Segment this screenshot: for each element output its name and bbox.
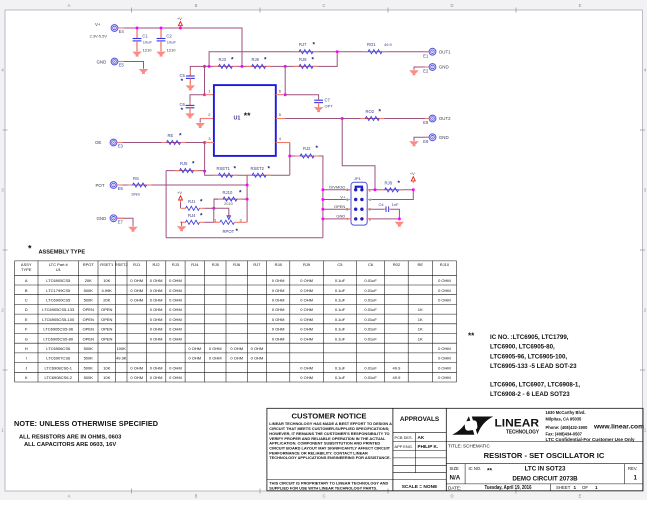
- wire RSET mid node down to RPOT pin 3: [246, 175, 248, 222]
- ground at C6: [185, 113, 195, 118]
- svg-text:GND: GND: [97, 59, 107, 64]
- svg-text:500K: 500K: [84, 365, 94, 370]
- svg-text:K: K: [25, 375, 28, 380]
- svg-text:0 OHM: 0 OHM: [169, 288, 182, 293]
- capacitor C7: [314, 97, 330, 107]
- svg-text:10K: 10K: [103, 278, 110, 283]
- resistor RJ9: [294, 56, 318, 68]
- op-amp / oscillator IC U1: [214, 85, 276, 156]
- svg-text:OF: OF: [582, 485, 588, 490]
- svg-text:500K: 500K: [84, 298, 94, 303]
- wire pin 3 down to RSET1/RSET2 row: [205, 143, 290, 176]
- svg-text:RJ5: RJ5: [180, 161, 188, 166]
- svg-text:LTC6908CS6-2: LTC6908CS6-2: [45, 375, 73, 380]
- svg-text:500K: 500K: [84, 346, 94, 351]
- svg-text:49.9: 49.9: [393, 375, 402, 380]
- svg-text:E: E: [25, 317, 28, 322]
- svg-text:RE: RE: [168, 133, 174, 138]
- svg-text:**: **: [244, 111, 251, 121]
- svg-text:LTC6905CS5: LTC6905CS5: [46, 278, 71, 283]
- svg-text:0 OHM: 0 OHM: [251, 346, 264, 351]
- +V power at RJ1: [177, 190, 182, 202]
- junction pin4/RJ2 branch: [288, 155, 291, 158]
- junction RJ1/RJ10/wiper node: [212, 207, 215, 210]
- svg-text:1: 1: [214, 217, 216, 222]
- svg-text:OUT2: OUT2: [439, 116, 451, 121]
- svg-text:20K: 20K: [103, 298, 110, 303]
- svg-text:0 OHM: 0 OHM: [130, 288, 143, 293]
- wire +V to RJ1: [180, 202, 182, 208]
- svg-text:C2: C2: [166, 34, 172, 39]
- svg-text:E: E: [579, 494, 582, 499]
- assembly type note: [28, 244, 85, 256]
- svg-text:Milpitas, CA 95035: Milpitas, CA 95035: [546, 417, 583, 422]
- connector E6 (POT): [110, 182, 123, 192]
- pin stubs: [117, 28, 429, 219]
- capacitor C6: [180, 101, 195, 114]
- resistor RSET2: [247, 166, 271, 178]
- svg-text:GND: GND: [97, 216, 107, 221]
- svg-text:0 OHM: 0 OHM: [272, 307, 285, 312]
- svg-text:TYPE: TYPE: [21, 267, 32, 272]
- svg-text:OPEN: OPEN: [83, 327, 94, 332]
- svg-text:GND: GND: [439, 135, 449, 140]
- wire node down to RPOT pin 1: [213, 208, 215, 222]
- svg-text:RPOT: RPOT: [223, 229, 235, 234]
- svg-text:PHILIP K.: PHILIP K.: [418, 444, 439, 449]
- svg-text:OPEN: OPEN: [83, 307, 94, 312]
- svg-text:OPEN: OPEN: [101, 317, 112, 322]
- svg-text:0 OHM: 0 OHM: [150, 298, 163, 303]
- svg-text:OPEN: OPEN: [101, 336, 112, 341]
- svg-text:0 OHM: 0 OHM: [150, 375, 163, 380]
- junction RS node: [246, 184, 249, 187]
- wire row-A RJ7 rail: [209, 52, 337, 67]
- svg-text:IC NO. :LTC6905, LTC1799,: IC NO. :LTC6905, LTC1799,: [490, 334, 569, 341]
- svg-text:D: D: [25, 307, 28, 312]
- svg-text:0 OHM: 0 OHM: [300, 278, 313, 283]
- wire C4 to ground node: [390, 209, 399, 219]
- svg-text:0 OHM: 0 OHM: [150, 307, 163, 312]
- svg-text:0.01uF: 0.01uF: [364, 278, 377, 283]
- junction pin 6 node: [284, 93, 287, 96]
- svg-text:0 OHM: 0 OHM: [300, 307, 313, 312]
- svg-text:R02: R02: [393, 262, 401, 267]
- svg-text:LTC6906CS6: LTC6906CS6: [46, 346, 71, 351]
- svg-text:0 OHM: 0 OHM: [169, 317, 182, 322]
- U1 pin 4 stub: [276, 136, 290, 142]
- svg-text:20K: 20K: [85, 278, 92, 283]
- svg-text:0 OHM: 0 OHM: [272, 327, 285, 332]
- size / ic no / rev row: [450, 466, 638, 483]
- svg-text:+V: +V: [410, 171, 415, 176]
- ground at JP1: [395, 222, 405, 227]
- svg-text:REV.: REV.: [628, 466, 637, 471]
- svg-text:0.01uF: 0.01uF: [364, 336, 377, 341]
- svg-text:0.1uF: 0.1uF: [335, 375, 346, 380]
- wire JP1 pin 4 to +V: [366, 190, 413, 200]
- svg-text:RJ6: RJ6: [252, 57, 260, 62]
- svg-text:C: C: [322, 3, 325, 8]
- svg-text:0 OHM: 0 OHM: [150, 288, 163, 293]
- svg-text:B: B: [25, 288, 28, 293]
- date row: [448, 485, 598, 491]
- junction +V rail: [179, 27, 182, 30]
- junction pin 1 node: [203, 93, 206, 96]
- svg-text:0 OHM: 0 OHM: [300, 336, 313, 341]
- U1 pin 6 stub: [276, 88, 285, 94]
- connector E9 (GND): [423, 134, 448, 144]
- svg-text:IC NO.: IC NO.: [469, 466, 482, 471]
- svg-text:0 OHM: 0 OHM: [438, 278, 451, 283]
- svg-text:0 OHM: 0 OHM: [300, 327, 313, 332]
- header JP1: [351, 176, 367, 225]
- ground at C5: [186, 85, 196, 90]
- svg-text:B: B: [195, 3, 198, 8]
- svg-text:0 OHM: 0 OHM: [272, 317, 285, 322]
- svg-text:LTC6905CS5-133: LTC6905CS5-133: [42, 307, 75, 312]
- junction row-B/pin6 branch: [284, 65, 287, 68]
- wire V+ rail from E4 to RJ3/RJ6 node: [118, 28, 242, 66]
- svg-text:0 OHM: 0 OHM: [130, 365, 143, 370]
- junction OUT2/JP1 branch: [341, 117, 344, 120]
- wire RJ2 row to JP1 select bus: [290, 156, 323, 238]
- connector E7 (GND): [110, 215, 123, 225]
- svg-text:RS: RS: [133, 176, 139, 181]
- wire JP1 pin 7 row: [323, 218, 351, 220]
- svg-text:LTC6900, LTC6905-80,: LTC6900, LTC6905-80,: [490, 344, 555, 351]
- wire pin 5 to OUT2: [285, 118, 428, 120]
- svg-text:1K: 1K: [418, 317, 423, 322]
- svg-text:0 OHM: 0 OHM: [300, 375, 313, 380]
- potentiometer RPOT: [214, 216, 247, 235]
- resistor RJ7: [294, 42, 318, 54]
- svg-text:TECHNOLOGY: TECHNOLOGY: [506, 430, 540, 436]
- svg-text:0 OHM: 0 OHM: [150, 327, 163, 332]
- resistor RE: [162, 132, 186, 144]
- wire E5 to ground: [118, 62, 143, 69]
- svg-text:E8: E8: [423, 120, 429, 125]
- junction C4/pin8 ground: [398, 217, 401, 220]
- svg-text:DNS: DNS: [132, 191, 141, 196]
- svg-text:500K: 500K: [84, 375, 94, 380]
- svg-text:0 OHM: 0 OHM: [209, 346, 222, 351]
- svg-text:OPEN: OPEN: [83, 317, 94, 322]
- wire bottom select rail: [166, 237, 323, 239]
- svg-text:49.9: 49.9: [384, 42, 393, 47]
- svg-text:**: **: [487, 468, 492, 475]
- svg-text:SCALE = NONE: SCALE = NONE: [402, 484, 438, 490]
- svg-text:E5: E5: [119, 63, 125, 68]
- junction row-B/pin1 branch: [203, 65, 206, 68]
- svg-text:1210: 1210: [167, 47, 177, 52]
- junction row-B/V+ rail: [241, 65, 244, 68]
- svg-text:0 OHM: 0 OHM: [272, 298, 285, 303]
- svg-text:49.9: 49.9: [393, 365, 402, 370]
- svg-text:LTC6907CS6: LTC6907CS6: [46, 356, 71, 361]
- wire JP1 pin 8 to ground node: [366, 218, 399, 220]
- svg-text:OPEN: OPEN: [101, 307, 112, 312]
- notes: [14, 419, 158, 448]
- svg-text:LTC6905-133 -5 LEAD SOT-23: LTC6905-133 -5 LEAD SOT-23: [490, 363, 577, 370]
- ground at E9: [409, 141, 419, 146]
- svg-text:RSET1: RSET1: [217, 166, 231, 171]
- wire JP1 pin 2 to +V: [366, 189, 413, 191]
- svg-text:GND: GND: [336, 214, 345, 219]
- svg-text:RJ7: RJ7: [299, 42, 307, 47]
- svg-text:RJ1: RJ1: [133, 262, 141, 267]
- junction select bus row 7: [321, 217, 324, 220]
- U1 pin 3 stub: [205, 136, 214, 142]
- svg-text:OPEN: OPEN: [83, 336, 94, 341]
- svg-text:RE: RE: [417, 262, 423, 267]
- svg-text:RJ6: RJ6: [233, 262, 241, 267]
- svg-text:RJ9: RJ9: [303, 262, 311, 267]
- wire JP1 pin 3 row: [323, 199, 351, 201]
- svg-text:0 OHM: 0 OHM: [188, 356, 201, 361]
- svg-text:0 OHM: 0 OHM: [209, 356, 222, 361]
- resistor RS: [128, 176, 152, 187]
- wire row-B RJ3/RJ6/RJ9 rail: [190, 52, 337, 70]
- junction select bus row 3: [321, 198, 324, 201]
- svg-text:2: 2: [208, 112, 210, 117]
- svg-text:2.3V-5.5V: 2.3V-5.5V: [90, 34, 108, 39]
- svg-text:RESISTOR - SET OSCILLATOR IC: RESISTOR - SET OSCILLATOR IC: [484, 451, 605, 460]
- svg-text:H: H: [25, 346, 28, 351]
- wire RJ1 to wiper node: [205, 207, 215, 209]
- junction select bus row 1: [321, 188, 324, 191]
- svg-text:1630 McCarthy Blvd.: 1630 McCarthy Blvd.: [546, 410, 586, 415]
- capacitor C5: [180, 71, 195, 85]
- wire E2 to ground: [414, 67, 429, 70]
- svg-text:RPOT: RPOT: [83, 262, 95, 267]
- svg-text:APP ENG.: APP ENG.: [395, 444, 413, 449]
- svg-text:B: B: [195, 494, 198, 499]
- svg-text:LTC6908-2 - 6 LEAD SOT23: LTC6908-2 - 6 LEAD SOT23: [490, 391, 570, 398]
- svg-text:RSET2: RSET2: [115, 262, 129, 267]
- svg-text:0 OHM: 0 OHM: [272, 336, 285, 341]
- svg-text:2010: 2010: [224, 201, 234, 206]
- approvals box: [395, 416, 440, 490]
- svg-text:ASSEMBLY TYPE: ASSEMBLY TYPE: [39, 250, 86, 256]
- svg-text:0 OHM: 0 OHM: [272, 288, 285, 293]
- svg-text:OPEN: OPEN: [334, 204, 345, 209]
- address block: [546, 410, 645, 442]
- resistor RJ6: [247, 56, 271, 68]
- svg-text:49.9K: 49.9K: [116, 356, 127, 361]
- wire JP1 pin 5 row: [323, 208, 351, 210]
- resistor RJ4: [181, 213, 205, 225]
- wire pin 2 to ground: [199, 119, 201, 123]
- svg-text:C6: C6: [368, 262, 374, 267]
- svg-text:0 OHM: 0 OHM: [169, 375, 182, 380]
- svg-text:DIVMOD: DIVMOD: [329, 185, 345, 190]
- svg-text:A: A: [68, 494, 71, 499]
- svg-text:0 OHM: 0 OHM: [150, 336, 163, 341]
- svg-text:LTC6905CS5-96: LTC6905CS5-96: [43, 327, 73, 332]
- svg-text:E: E: [579, 3, 582, 8]
- svg-text:500K: 500K: [84, 288, 94, 293]
- svg-text:10uF: 10uF: [167, 39, 177, 44]
- connector E1 (OUT1): [423, 48, 451, 58]
- svg-text:0 OHM: 0 OHM: [230, 356, 243, 361]
- svg-text:RJ9: RJ9: [299, 57, 307, 62]
- svg-text:A: A: [68, 3, 71, 8]
- wire RJ5 row: [166, 170, 205, 172]
- svg-text:0 OHM: 0 OHM: [169, 307, 182, 312]
- svg-text:0.1uF: 0.1uF: [335, 298, 346, 303]
- svg-text:E6: E6: [118, 186, 124, 191]
- assembly options table: [15, 261, 457, 382]
- svg-text:RJ10: RJ10: [440, 262, 450, 267]
- svg-text:ALL CAPACITORS ARE 0603, 16V: ALL CAPACITORS ARE 0603, 16V: [24, 442, 116, 448]
- svg-text:E1: E1: [423, 53, 429, 58]
- wire row-B down to U1 pin 1: [204, 66, 206, 94]
- wire E7 to ground: [117, 218, 133, 226]
- svg-text:RSET2: RSET2: [251, 166, 265, 171]
- svg-text:RO2: RO2: [366, 109, 375, 114]
- svg-text:6: 6: [279, 88, 281, 93]
- svg-text:0.1uF: 0.1uF: [335, 327, 346, 332]
- svg-text:LTC Confidential-For Customer: LTC Confidential-For Customer Use Only: [546, 437, 636, 442]
- svg-text:0 OHM: 0 OHM: [300, 365, 313, 370]
- title block frame: [267, 408, 643, 491]
- svg-text:0.1uF: 0.1uF: [335, 336, 346, 341]
- svg-text:10K: 10K: [103, 375, 110, 380]
- wire RJ4 to ground: [181, 222, 182, 226]
- wire pin 6 to C7: [285, 95, 318, 100]
- svg-text:C: C: [25, 298, 28, 303]
- wire RJ4 to RPOT pin 1: [205, 221, 214, 223]
- svg-text:500K: 500K: [84, 356, 94, 361]
- svg-text:U1: U1: [56, 267, 62, 272]
- svg-text:1K: 1K: [418, 327, 423, 332]
- svg-text:0 OHM: 0 OHM: [438, 346, 451, 351]
- svg-text:GND: GND: [439, 65, 449, 70]
- svg-text:LTC6906, LTC6907, LTC6908-1,: LTC6906, LTC6907, LTC6908-1,: [490, 382, 580, 389]
- svg-text:0 OHM: 0 OHM: [169, 365, 182, 370]
- svg-text:D: D: [450, 3, 453, 8]
- wire POT/RS row: [117, 184, 247, 186]
- svg-text:RJ4: RJ4: [188, 213, 196, 218]
- svg-text:0 OHM: 0 OHM: [438, 375, 451, 380]
- svg-text:0 OHM: 0 OHM: [300, 298, 313, 303]
- svg-text:ALL RESISTORS ARE IN OHMS, 060: ALL RESISTORS ARE IN OHMS, 0603: [19, 435, 122, 441]
- svg-text:DATE:: DATE:: [448, 485, 461, 490]
- svg-text:0 OHM: 0 OHM: [150, 317, 163, 322]
- svg-text:C: C: [322, 494, 325, 499]
- svg-text:A: A: [25, 278, 28, 283]
- svg-text:0.01uF: 0.01uF: [364, 365, 377, 370]
- svg-text:OPEN: OPEN: [101, 327, 112, 332]
- svg-text:TITLE: SCHEMATIC: TITLE: SCHEMATIC: [448, 444, 490, 449]
- svg-text:0 OHM: 0 OHM: [169, 278, 182, 283]
- svg-text:0.01uF: 0.01uF: [364, 298, 377, 303]
- wire OE to pin 3: [117, 142, 204, 144]
- svg-text:RJ8: RJ8: [385, 181, 393, 186]
- svg-text:RJ7: RJ7: [253, 262, 261, 267]
- wire JP1 pin 1 row: [323, 189, 351, 191]
- resistor RO2: [360, 108, 384, 120]
- svg-text:1nF: 1nF: [392, 202, 399, 207]
- resistor RSET1: [214, 166, 238, 178]
- svg-text:DEMO CIRCUIT 2073B: DEMO CIRCUIT 2073B: [512, 476, 578, 483]
- svg-text:0.01uF: 0.01uF: [364, 307, 377, 312]
- svg-text:0 OHM: 0 OHM: [438, 298, 451, 303]
- svg-text:1210: 1210: [143, 47, 153, 52]
- svg-text:1: 1: [595, 485, 598, 490]
- ground at pin 2: [195, 123, 205, 128]
- svg-text:RSET1: RSET1: [100, 262, 114, 267]
- svg-text:0 OHM: 0 OHM: [130, 278, 143, 283]
- svg-text:0 OHM: 0 OHM: [150, 278, 163, 283]
- svg-text:RJ3: RJ3: [219, 57, 227, 62]
- svg-text:0.1uF: 0.1uF: [335, 288, 346, 293]
- svg-text:C5: C5: [337, 262, 343, 267]
- svg-text:3: 3: [240, 217, 242, 222]
- svg-text:0.01uF: 0.01uF: [364, 327, 377, 332]
- junction pin2/OUT2 branch: [374, 188, 377, 191]
- U1 pin 5 stub: [276, 112, 285, 118]
- resistor RJ5: [175, 161, 199, 173]
- ground at C1: [132, 52, 142, 57]
- svg-text:10uF: 10uF: [143, 39, 153, 44]
- svg-text:NOTE: UNLESS OTHERWISE SPECIFI: NOTE: UNLESS OTHERWISE SPECIFIED: [14, 419, 158, 428]
- resistor RO1: [363, 42, 387, 54]
- svg-text:LTC IN SOT23: LTC IN SOT23: [525, 466, 566, 473]
- junction C1/V+ rail: [136, 27, 139, 30]
- svg-text:0.1uF: 0.1uF: [335, 307, 346, 312]
- svg-text:E2: E2: [423, 69, 429, 74]
- wire RJ10 row: [214, 198, 247, 200]
- svg-text:www.linear.com: www.linear.com: [593, 424, 644, 430]
- resistor RJ8: [380, 180, 404, 192]
- wire RJ5 left leg down to bottom rail: [165, 171, 167, 238]
- svg-text:RJ10: RJ10: [223, 190, 233, 195]
- svg-text:CUSTOMER NOTICE: CUSTOMER NOTICE: [291, 411, 366, 420]
- svg-text:10K: 10K: [103, 365, 110, 370]
- svg-text:0 OHM: 0 OHM: [300, 317, 313, 322]
- resistor RJ3: [213, 56, 237, 68]
- svg-text:LTC6908CS6-1: LTC6908CS6-1: [45, 365, 73, 370]
- svg-text:1K: 1K: [418, 336, 423, 341]
- svg-text:U1: U1: [234, 116, 241, 122]
- svg-text:0 OHM: 0 OHM: [130, 375, 143, 380]
- junction select bus row 5: [321, 208, 324, 211]
- svg-text:OUT1: OUT1: [439, 49, 451, 54]
- wire pin 4 down to RSET2: [289, 143, 291, 176]
- svg-text:0 OHM: 0 OHM: [300, 288, 313, 293]
- ground at E7: [128, 227, 138, 232]
- svg-text:G: G: [25, 336, 28, 341]
- svg-text:0.01uF: 0.01uF: [364, 375, 377, 380]
- connector E8 (OUT2): [423, 115, 451, 125]
- ground at RJ4: [177, 226, 187, 231]
- svg-text:RJ2: RJ2: [153, 262, 161, 267]
- svg-text:SIZE: SIZE: [450, 466, 460, 471]
- svg-text:AK: AK: [418, 435, 425, 440]
- resistor RJ2: [295, 145, 319, 158]
- svg-text:**: **: [468, 332, 475, 341]
- svg-text:1: 1: [574, 485, 577, 490]
- svg-text:E7: E7: [118, 220, 124, 225]
- svg-text:Tuesday, April 19, 2016: Tuesday, April 19, 2016: [485, 485, 532, 491]
- svg-text:LTC6905CS5-80: LTC6905CS5-80: [43, 336, 73, 341]
- capacitor C4: [366, 202, 399, 212]
- svg-text:1: 1: [208, 88, 210, 93]
- ground at E2: [409, 70, 419, 75]
- svg-text:POT: POT: [96, 183, 105, 188]
